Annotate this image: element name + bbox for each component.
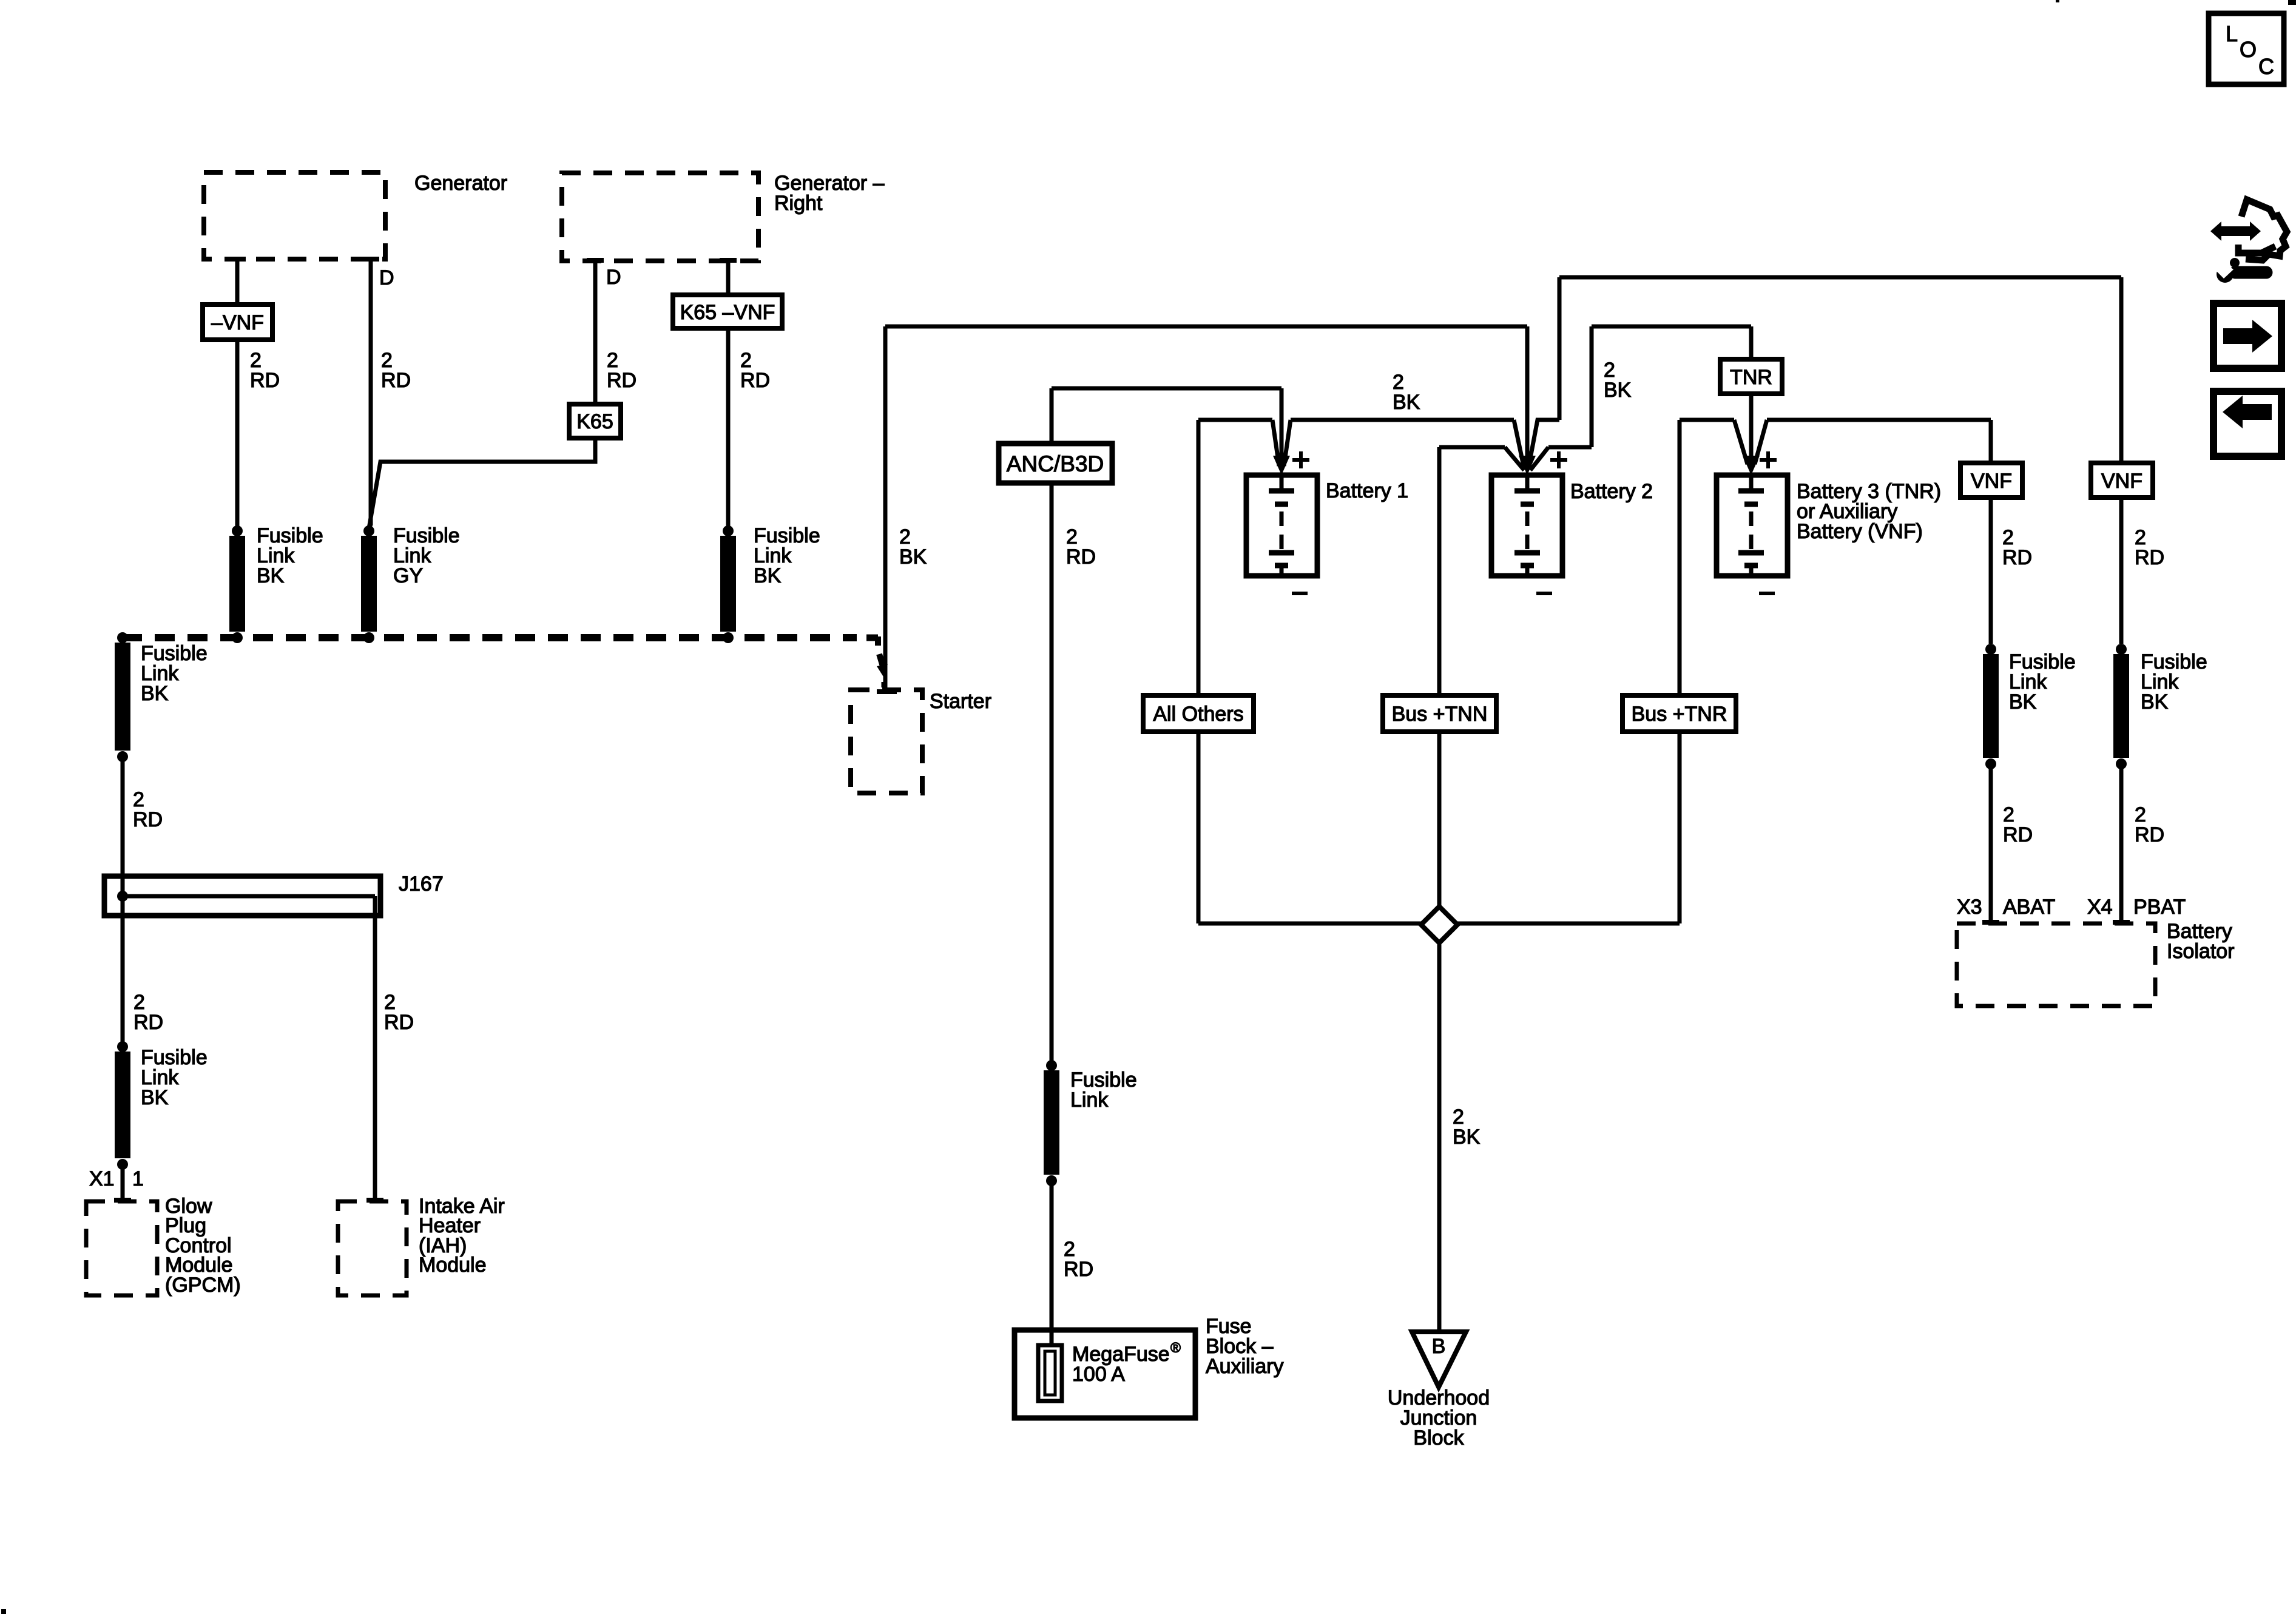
svg-text:1: 1 (132, 1167, 144, 1190)
GPCM terminal stub (114, 1198, 131, 1203)
svg-text:RD: RD (384, 1011, 414, 1034)
wire VNF right down (2119, 498, 2124, 644)
generator - right dashed module box (562, 173, 758, 261)
fusible link BK (generator) (232, 525, 243, 536)
wire -VNF to fusible link (235, 340, 240, 527)
harness boundary dashed line (122, 634, 857, 641)
svg-text:RD: RD (250, 369, 280, 392)
svg-text:BK: BK (2141, 690, 2169, 714)
wire K65 -VNF to fusible link (726, 328, 731, 527)
wire horizontal y692 battery3 left (1680, 418, 1734, 422)
harness boundary corner dash (866, 635, 878, 641)
wire horizontal y692 to VNF (1767, 418, 1991, 422)
svg-text:–VNF: –VNF (211, 311, 264, 334)
icon double arrow (2210, 221, 2261, 241)
svg-text:K65 –VNF: K65 –VNF (680, 301, 775, 324)
wire to riser 2623 (1548, 445, 1592, 450)
wire VNF left down (1989, 498, 1993, 644)
wire generator to -VNF (235, 259, 240, 305)
fusible link BK (below boundary) (117, 632, 128, 643)
wire horizontal battery bus y692 (mid) (1291, 418, 1514, 422)
wire battery 2 center feed (1525, 326, 1530, 462)
wire bus+TNN horizontal (1439, 445, 1505, 450)
svg-text:BK: BK (1453, 1126, 1481, 1149)
starter dashed module box (851, 690, 922, 793)
wire J167 right branch (373, 896, 377, 1200)
battery 3 minus (1759, 592, 1775, 595)
svg-text:TNR: TNR (1730, 366, 1772, 389)
wire horizontal y538 right (1592, 325, 1751, 329)
svg-text:RD: RD (133, 808, 163, 831)
svg-text:Starter: Starter (930, 690, 991, 713)
battery 3 plus (1760, 458, 1777, 462)
wire battery 2 V lower-right (1530, 447, 1548, 470)
svg-text:X4: X4 (2087, 896, 2113, 919)
wire TNR to battery 3 (1749, 394, 1754, 462)
battery 2 (1491, 475, 1562, 576)
wire ANC/B3D down (1050, 483, 1054, 1063)
battery isolator dashed box (1957, 923, 2155, 1006)
generator terminal stub D (362, 257, 379, 262)
svg-text:RD: RD (740, 369, 770, 392)
generator (left) dashed module box (204, 172, 385, 259)
fusible link BK (ABAT) (1985, 644, 1996, 655)
svg-text:RD: RD (2002, 546, 2032, 569)
battery 1 plus (1292, 458, 1309, 462)
generator-right terminal stub (720, 258, 737, 263)
svg-text:Block: Block (1413, 1426, 1464, 1450)
wire junction horizontal right (1454, 922, 1680, 926)
svg-text:B: B (1432, 1335, 1446, 1358)
svg-text:BK: BK (1393, 391, 1420, 414)
fusible link BK (GPCM feed) (117, 1041, 128, 1052)
fusible link GY (363, 525, 374, 536)
wire to GPCM (121, 1163, 125, 1200)
battery 1 feed V right (1284, 420, 1291, 466)
wire generator-right to K65 -VNF (726, 261, 731, 295)
icon wrench (2217, 266, 2234, 283)
page speck bottom left (1, 1609, 6, 1614)
svg-text:L: L (2226, 21, 2238, 46)
wire bus+TNR riser (1678, 420, 1682, 695)
wire bus+TNN riser (1437, 447, 1442, 695)
wire to X3 ABAT (1989, 764, 1993, 922)
svg-text:X3: X3 (1957, 896, 1982, 919)
svg-text:Right: Right (774, 192, 823, 215)
battery 2 arrowhead (1519, 456, 1536, 475)
fusible link BK (generator - right) (723, 525, 734, 536)
generator-right terminal stub D (587, 258, 604, 263)
svg-text:RD: RD (2135, 546, 2164, 569)
svg-text:Auxiliary: Auxiliary (1206, 1355, 1283, 1378)
svg-text:RD: RD (2003, 823, 2033, 846)
wire generator-right to K65 (593, 261, 598, 404)
wire bus+TNN to junction (1437, 732, 1442, 910)
battery 2 plus (1550, 458, 1567, 462)
svg-text:J167: J167 (399, 873, 444, 896)
svg-text:D: D (379, 266, 394, 289)
svg-text:BK: BK (141, 1086, 169, 1109)
harness boundary arrow to starter (879, 654, 883, 666)
svg-text:BK: BK (141, 682, 169, 705)
svg-text:RD: RD (1064, 1258, 1093, 1281)
svg-text:ABAT: ABAT (2003, 896, 2055, 919)
battery 1 minus (1292, 592, 1308, 595)
svg-text:RD: RD (1066, 545, 1096, 569)
svg-text:BK: BK (1604, 379, 1632, 402)
svg-text:Generator: Generator (414, 172, 507, 195)
svg-text:C: C (2258, 54, 2274, 79)
svg-text:X1: X1 (89, 1167, 115, 1190)
wire generator D to fusible link (369, 259, 373, 525)
svg-text:VNF: VNF (2101, 470, 2142, 493)
wire y692 drop to VNF (1989, 420, 1993, 463)
page speck top right (2288, 0, 2296, 5)
battery 2 minus (1536, 592, 1552, 595)
svg-text:BK: BK (257, 564, 285, 587)
icon back arrow box (2213, 391, 2281, 456)
icon harness outline (2241, 200, 2287, 260)
IAH terminal stub (366, 1198, 383, 1203)
wire bus+TNR to junction (1678, 732, 1682, 923)
svg-text:BK: BK (899, 545, 927, 569)
svg-text:K65: K65 (576, 410, 613, 433)
battery 3 (1717, 475, 1788, 576)
battery 1 feed V left (1272, 420, 1279, 466)
wire K65 to fusible link GY (369, 438, 595, 528)
glow plug control module (GPCM) dashed box (86, 1201, 157, 1295)
battery isolator terminal stub X3 (1982, 920, 1999, 925)
svg-text:D: D (606, 266, 621, 289)
wire junction horizontal left (1198, 922, 1425, 926)
svg-text:All Others: All Others (1153, 703, 1243, 726)
svg-text:Module: Module (419, 1254, 487, 1277)
fusible link BK (PBAT) (2116, 644, 2127, 655)
svg-text:O: O (2240, 37, 2257, 62)
wire ANC/B3D to battery 1 (1052, 387, 1281, 391)
label K65 -VNF (673, 295, 782, 328)
label VNF (right) (2091, 463, 2153, 498)
svg-text:Battery 2: Battery 2 (1570, 480, 1653, 503)
label ANC/B3D (999, 444, 1112, 483)
svg-text:Bus +TNR: Bus +TNR (1632, 703, 1727, 726)
splice pack J167 (104, 876, 380, 916)
wire to J167 (121, 757, 125, 879)
wire to X4 PBAT (2119, 764, 2124, 922)
wire horizontal battery bus y692 (left) (1198, 418, 1272, 422)
underhood junction block triangle (1412, 1332, 1466, 1387)
wire ANC/B3D up (1050, 388, 1054, 444)
LOC logo box (2209, 13, 2284, 84)
wire J167 left branch upper (121, 876, 125, 1048)
battery 3 V left (1734, 420, 1747, 464)
wire MegaFuse feed (1050, 1182, 1054, 1345)
svg-text:RD: RD (381, 369, 411, 392)
label -VNF (203, 305, 272, 340)
svg-text:RD: RD (133, 1011, 163, 1034)
label Bus +TNN (1383, 695, 1496, 732)
icon harness lower bar (2238, 245, 2275, 253)
svg-text:BK: BK (754, 564, 782, 587)
svg-text:100 A: 100 A (1072, 1363, 1125, 1386)
svg-text:ANC/B3D: ANC/B3D (1007, 451, 1104, 476)
wire all others riser (1197, 420, 1201, 695)
svg-text:(GPCM): (GPCM) (165, 1274, 241, 1297)
junction diamond (1421, 906, 1457, 943)
label Bus +TNR (1622, 695, 1736, 732)
svg-text:Battery 1: Battery 1 (1326, 479, 1408, 502)
fusible link (MegaFuse feed) (1046, 1060, 1057, 1071)
battery 1 (1246, 475, 1317, 576)
icon forward arrow box (2213, 303, 2281, 368)
wire bus to starter (883, 326, 888, 691)
label TNR (1720, 359, 1782, 394)
wire all others to junction (1197, 732, 1201, 923)
svg-text:VNF: VNF (1971, 470, 2012, 493)
wire TNR drop (1749, 326, 1754, 359)
wire riser 2623 (1590, 326, 1594, 447)
svg-text:Bus +TNN: Bus +TNN (1392, 703, 1488, 726)
wire battery 2 jog (1529, 420, 1559, 465)
svg-text:PBAT: PBAT (2133, 896, 2186, 919)
svg-text:GY: GY (393, 564, 423, 587)
wire horizontal bus (2 BK upper) (885, 325, 1527, 329)
wire top bus (1559, 275, 2121, 280)
page speck top middle (2056, 0, 2059, 2)
battery 3 V right (1755, 420, 1767, 464)
wire junction to underhood block (1437, 943, 1442, 1332)
svg-text:Isolator: Isolator (2167, 940, 2235, 963)
svg-text:®: ® (1170, 1340, 1181, 1355)
svg-text:RD: RD (2135, 823, 2164, 846)
generator terminal stub (229, 257, 246, 262)
svg-text:Link: Link (1070, 1089, 1109, 1112)
svg-text:RD: RD (607, 369, 636, 392)
wire battery 2 V lower-left (1505, 447, 1524, 470)
battery 3 arrowhead (1743, 456, 1760, 475)
label All Others (1143, 695, 1254, 732)
battery isolator terminal stub X4 (2113, 920, 2130, 925)
battery 1 arrowhead (1273, 456, 1290, 475)
wire battery 2 V left (1514, 420, 1524, 466)
fuse block auxiliary box (1015, 1330, 1195, 1418)
label VNF (left) (1960, 463, 2022, 498)
svg-text:Battery (VNF): Battery (VNF) (1797, 520, 1923, 543)
wire top bus right drop (1558, 277, 1562, 420)
wire top bus drop to VNF (2119, 277, 2124, 463)
starter terminal stub (877, 689, 897, 694)
intake air heater (IAH) module dashed box (338, 1201, 407, 1295)
label K65 (569, 404, 621, 438)
svg-text:BK: BK (2009, 690, 2037, 714)
MegaFuse fuse symbol (1038, 1345, 1062, 1401)
